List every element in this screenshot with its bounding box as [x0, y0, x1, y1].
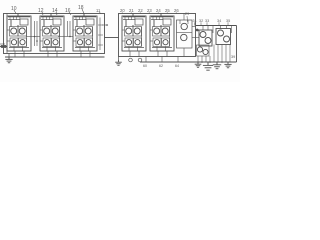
svg-text:10: 10 — [11, 6, 17, 12]
svg-text:60: 60 — [143, 64, 147, 68]
svg-text:21: 21 — [129, 8, 134, 13]
svg-text:11: 11 — [96, 8, 101, 13]
svg-text:29: 29 — [185, 12, 189, 16]
svg-text:23: 23 — [147, 8, 152, 13]
svg-text:24: 24 — [156, 8, 161, 13]
svg-text:39: 39 — [231, 55, 235, 59]
svg-text:12: 12 — [38, 8, 44, 14]
svg-text:22: 22 — [138, 8, 143, 13]
svg-text:64: 64 — [175, 64, 179, 68]
svg-text:20: 20 — [120, 8, 125, 13]
svg-text:62: 62 — [159, 64, 163, 68]
svg-text:14: 14 — [52, 8, 58, 14]
svg-text:18: 18 — [78, 5, 84, 11]
svg-text:26: 26 — [174, 8, 179, 13]
svg-text:25: 25 — [165, 8, 170, 13]
